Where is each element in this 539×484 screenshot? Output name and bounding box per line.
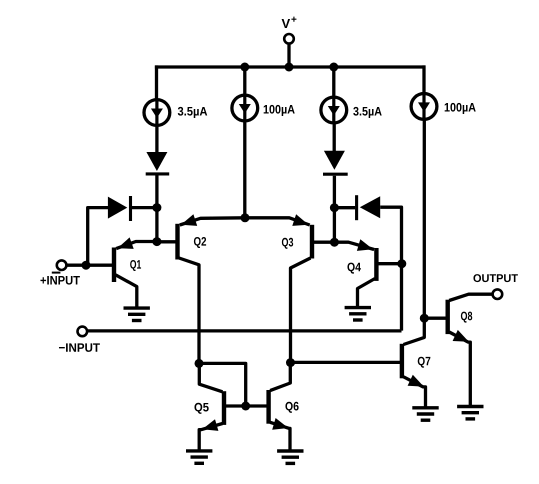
node: Q2 collector / Q5 collector junction bbox=[195, 359, 204, 368]
terminal -INPUT bbox=[59, 327, 100, 352]
transistor Q6 (NPN) bbox=[246, 363, 299, 450]
terminal OUTPUT bbox=[473, 274, 517, 299]
transistor Q7 (NPN) bbox=[291, 318, 431, 406]
node: rail junction to 3.5uA source I3 bbox=[329, 63, 338, 72]
terminal +INPUT bbox=[40, 260, 79, 284]
wire: center link Q5/Q6 bases to Q2 collector node bbox=[199, 363, 246, 406]
ground at Q6 emitter bbox=[277, 451, 303, 463]
node: Q4 base junction bbox=[397, 259, 406, 268]
wire: rail down to current source I1 bbox=[155, 65, 158, 101]
wire: -INPUT line across to Q4 base branch bbox=[87, 329, 401, 332]
wire: rail down to current source I2 bbox=[243, 65, 246, 96]
transistor Q4 (PNP) bbox=[334, 239, 401, 307]
wire: +INPUT to Q1 base bbox=[66, 264, 114, 267]
current source I3 3.5uA bbox=[321, 97, 382, 123]
ground at Q8 emitter bbox=[457, 407, 483, 419]
node: rail junction to 100uA source I2 bbox=[240, 63, 249, 72]
diode D1 bbox=[146, 152, 170, 174]
transistor Q1 (PNP) bbox=[114, 237, 157, 307]
wire: D2 anode branch up from +INPUT node bbox=[88, 208, 109, 266]
transistor Q3 (PNP) bbox=[245, 214, 334, 362]
transistor Q8 (NPN) bbox=[424, 294, 493, 405]
wire: D2 cathode to D1 node bbox=[132, 206, 157, 209]
node: +INPUT / D2 anode junction bbox=[82, 261, 91, 270]
wire: D3 cathode down through node to Q3 base node bbox=[333, 176, 336, 243]
node: Q3 collector / Q6 collector / Q7 base junction bbox=[286, 358, 295, 367]
transistor Q5 (NPN, mirrored) bbox=[194, 363, 245, 450]
ground at Q4 collector bbox=[345, 308, 371, 320]
wire: I1 to diode D1 bbox=[155, 124, 158, 153]
wire: I3 to diode D3 bbox=[333, 122, 336, 152]
transistor Q2 (PNP) bbox=[157, 214, 245, 363]
wire: V+ supply rail bbox=[155, 65, 426, 68]
node: D1/D2 cathode junction bbox=[152, 203, 161, 212]
node: Q2/Q3 emitter junction bbox=[241, 213, 250, 222]
current source I4 100uA bbox=[411, 94, 476, 120]
node: rail junction at V+ stem bbox=[285, 63, 294, 72]
diode D3 bbox=[323, 151, 348, 174]
current source I1 3.5uA bbox=[144, 100, 207, 126]
node: Q8 base / Q7 collector junction bbox=[420, 314, 429, 323]
wire: rail down to current source I4 bbox=[422, 65, 425, 94]
diode D4 bbox=[357, 195, 381, 220]
wire: I4 down to Q8 base node bbox=[423, 118, 426, 318]
wire: I2 down to Q2/Q3 emitter node bbox=[243, 120, 246, 218]
power terminal V+ bbox=[282, 17, 297, 67]
wire: right diode branch D4 from Q3 base node bbox=[334, 206, 355, 209]
ground at Q5 emitter bbox=[186, 451, 212, 463]
current source I2 100uA bbox=[232, 95, 295, 121]
wire: D4 anode over and down to Q4 base node and -INPUT corner bbox=[380, 207, 401, 330]
node: Q3 base / Q4 emitter junction bbox=[330, 238, 339, 247]
node: Q5/Q6 base junction bbox=[241, 402, 250, 411]
wire: rail down to current source I3 bbox=[332, 65, 335, 98]
node: D3/D4 junction bbox=[330, 203, 339, 212]
ground at Q1 collector bbox=[124, 308, 150, 320]
node: Q1 emitter / Q2 base junction bbox=[152, 237, 161, 246]
diode D2 bbox=[108, 196, 131, 221]
wire: D1 cathode down through node to Q1/Q2 node bbox=[155, 175, 158, 241]
ground at Q7 emitter bbox=[412, 408, 438, 420]
